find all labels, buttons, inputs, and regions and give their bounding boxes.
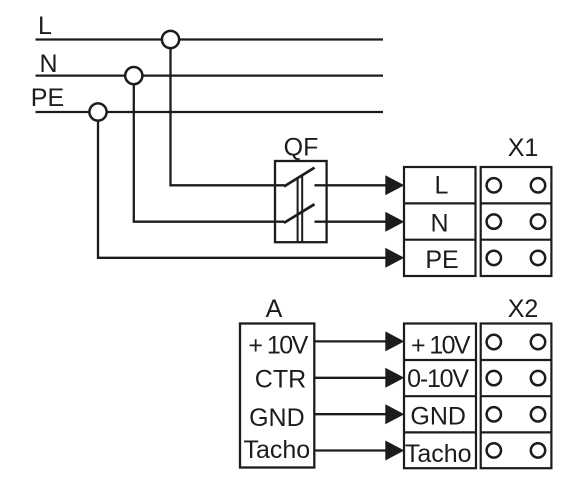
wire QF pole 2 output to X1 row N [315,221,387,223]
X1 row L contact circle 1 [487,178,501,192]
X1 name box separator 2 [404,239,476,241]
wire L drop to QF pole 1 [171,48,285,185]
X2 row Tacho contact circle 2 [531,443,545,457]
wire A GND to X2 [314,413,386,415]
terminal block X2 contact box [481,324,552,469]
terminal block X1 name box [404,167,476,276]
arrow into X1 row L [385,175,404,195]
svg-text:Tacho: Tacho [405,440,472,468]
X2 row 0-10V contact circle 2 [531,371,545,385]
X1 row PE contact circle 2 [531,251,545,265]
terminal block X1 contact box [481,167,552,276]
X1 contact box separator 2 [481,239,552,241]
arrow into X2 row GND [385,404,404,424]
svg-text:X1: X1 [508,134,539,162]
breaker QF pole 1 blade [284,168,315,187]
svg-text:PE: PE [425,246,458,274]
X2 contact box separator 1 [481,359,552,361]
wire A Tacho to X2 [314,449,386,451]
arrow into X1 row N [385,212,404,232]
breaker QF box [275,161,327,242]
svg-text:QF: QF [284,134,319,162]
X2 row GND contact circle 1 [487,407,501,421]
X2 row Tacho contact circle 1 [487,443,501,457]
junction circle on PE rail [89,103,106,120]
X2 name box separator 2 [404,395,476,397]
svg-text:PE: PE [31,84,64,112]
X2 row +10V contact circle 2 [531,335,545,349]
X2 name box separator 3 [404,431,476,433]
controller A box [240,324,314,468]
arrow into X2 row Tacho [385,441,404,461]
wire N drop to QF pole 2 [134,84,285,222]
wire A +10V to X2 [314,340,386,342]
svg-text:0-10V: 0-10V [407,365,469,393]
X1 contact box separator 1 [481,202,552,204]
wire QF pole 1 output to X1 row L [315,184,387,186]
svg-text:A: A [266,295,283,323]
svg-text:Tacho: Tacho [243,436,310,464]
svg-text:+ 10V: + 10V [248,332,308,360]
junction circle on N rail [125,67,142,84]
X1 row N contact circle 1 [487,214,501,228]
X1 row N contact circle 2 [531,214,545,228]
svg-text:X2: X2 [508,295,539,323]
arrow into X1 row PE [385,248,404,268]
X1 name box separator 1 [404,202,476,204]
arrow into X2 row 0-10V [385,368,404,388]
svg-text:GND: GND [249,404,305,432]
X1 row L contact circle 2 [531,178,545,192]
X2 name box separator 1 [404,359,476,361]
X2 contact box separator 2 [481,395,552,397]
wire PE drop to X1 [98,121,386,258]
svg-text:L: L [435,172,449,200]
breaker QF pole 2 blade [284,204,315,223]
svg-text:N: N [430,210,448,238]
wire PE rail [36,111,384,113]
X2 row 0-10V contact circle 1 [487,371,501,385]
svg-text:GND: GND [410,402,466,430]
breaker QF linkage bar right [301,175,303,242]
breaker QF linkage bar left [297,178,299,242]
svg-text:L: L [38,12,52,40]
junction circle on L rail [162,31,179,48]
X2 contact box separator 3 [481,431,552,433]
X2 row +10V contact circle 1 [487,335,501,349]
wire A CTR to X2 [314,377,386,379]
arrow into X2 row +10V [385,331,404,351]
wire L rail [36,38,384,40]
X2 row GND contact circle 2 [531,407,545,421]
wire N rail [36,74,384,76]
svg-text:+ 10V: + 10V [411,332,471,360]
svg-text:N: N [40,50,58,78]
svg-text:CTR: CTR [255,365,306,393]
terminal block X2 name box [404,324,476,469]
X1 row PE contact circle 1 [487,251,501,265]
